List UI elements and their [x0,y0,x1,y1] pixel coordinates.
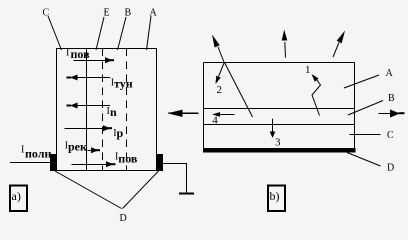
svg-text:B: B [125,8,132,19]
svg-text:1: 1 [305,64,311,76]
svg-text:a): a) [12,189,21,203]
svg-text:полн: полн [25,147,51,161]
svg-text:2: 2 [217,84,223,96]
svg-text:4: 4 [212,115,218,127]
svg-text:D: D [387,163,394,174]
svg-text:E: E [104,8,110,19]
svg-text:3: 3 [275,136,281,148]
svg-text:A: A [386,68,394,79]
svg-text:b): b) [270,189,280,203]
svg-text:рек: рек [68,140,87,154]
svg-text:n: n [110,105,117,119]
svg-text:I: I [66,48,69,59]
svg-text:пов: пов [118,152,138,166]
svg-text:тун: тун [114,77,133,91]
svg-text:I: I [21,145,24,156]
svg-text:пов: пов [71,47,91,61]
svg-text:C: C [387,130,394,141]
svg-text:D: D [120,213,127,224]
svg-text:p: p [117,126,124,140]
svg-text:B: B [388,93,395,104]
